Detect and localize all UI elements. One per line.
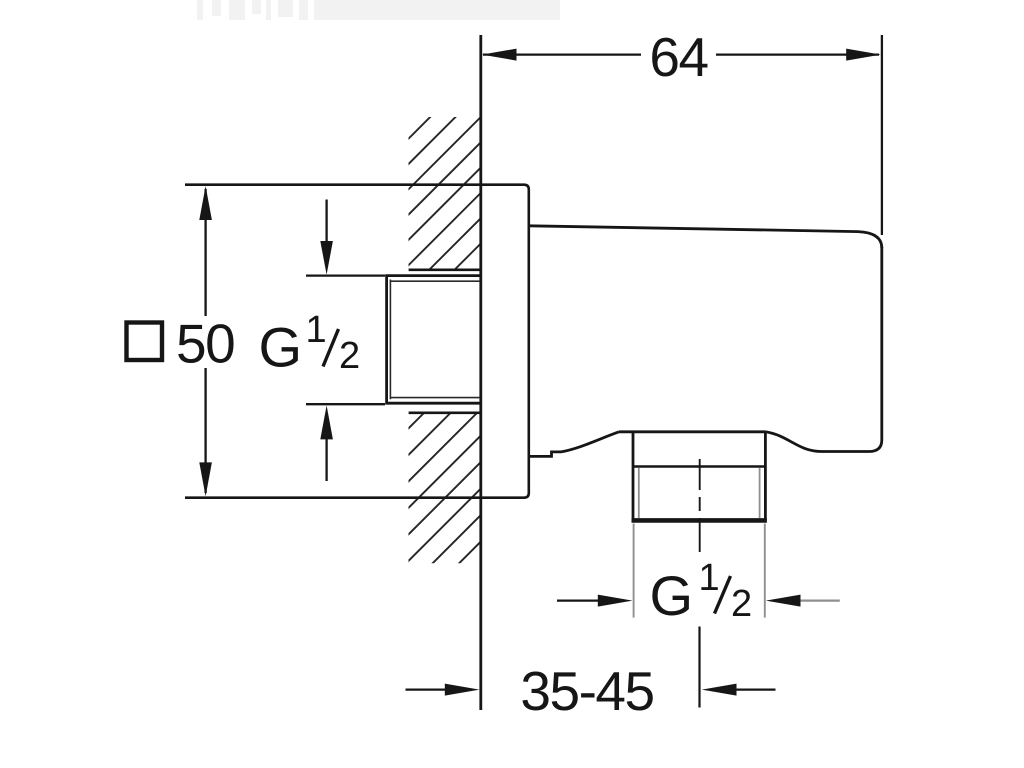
svg-text:50: 50 [176, 312, 234, 374]
threaded inlet union outer [387, 276, 480, 404]
dim 50 top arrowhead [199, 186, 212, 220]
outlet pipe right edge [764, 432, 767, 520]
svg-text:2: 2 [731, 583, 752, 625]
outlet G1/2 extension lines (gray) [633, 524, 635, 618]
dim 35-45 left arrow [406, 688, 447, 690]
wall hole bottom edge [409, 411, 480, 414]
dim 50 bottom arrowhead [199, 462, 212, 496]
outlet shoulder line [619, 430, 765, 433]
dim 64: left extension uses wall line; right extension line [881, 35, 883, 235]
outlet thread start line [632, 465, 766, 468]
outlet thread minor-diameter lines [638, 468, 640, 518]
dim 64 left arrowhead [482, 49, 517, 61]
outlet G1/2 right arrow [799, 599, 840, 601]
outlet G1/2 label [650, 557, 753, 627]
outlet thread end thick line [632, 518, 767, 523]
inlet G1/2 upper arrow [325, 200, 327, 248]
inlet G1/2 extension lines [306, 274, 385, 276]
dim 35-45 right arrow [735, 688, 776, 690]
svg-text:2: 2 [339, 335, 360, 377]
dim 64 dimension line [483, 53, 641, 55]
svg-text:1: 1 [306, 309, 327, 351]
threaded inlet union inner thread lines [390, 280, 480, 400]
inlet G1/2 label [259, 309, 361, 379]
hatching (wall section) below inlet [247, 390, 633, 590]
hatching (wall section) above inlet [232, 90, 660, 290]
square symbol [127, 323, 163, 361]
svg-text:G: G [259, 315, 303, 378]
svg-text:64: 64 [649, 26, 707, 88]
body lower-right S-curve to outlet [765, 432, 821, 452]
body lower-left curve and step to plate [529, 432, 619, 457]
inlet G1/2 lower arrow [325, 434, 327, 481]
body top edge [529, 226, 882, 248]
wall front line [479, 35, 482, 710]
wall hole top edge [409, 268, 480, 271]
wall plate (escutcheon) [185, 185, 529, 498]
svg-text:1: 1 [699, 557, 720, 599]
outlet pipe left edge [632, 432, 635, 520]
body right edge [822, 247, 882, 452]
outlet centerline (dashed) [699, 459, 701, 552]
dim 35-45 center extension line [698, 627, 700, 708]
faint cropped watermark text band at top [197, 0, 560, 20]
svg-text:35-45: 35-45 [520, 660, 653, 722]
dim 64 right arrowhead [846, 49, 881, 61]
outlet G1/2 left arrow [557, 599, 599, 601]
dim 50 dimension line (broken for text) [204, 189, 206, 316]
svg-text:G: G [650, 564, 694, 627]
